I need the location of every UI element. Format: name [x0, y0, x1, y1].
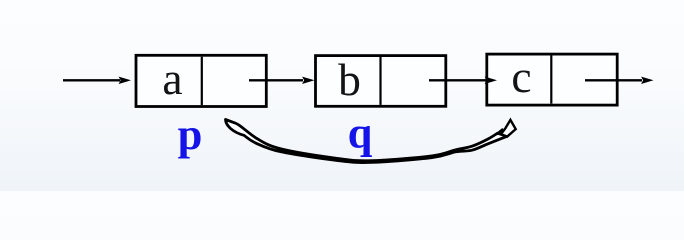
pointer arrow node b to node c	[429, 77, 497, 84]
curved arrow q: arrowhead	[501, 120, 516, 137]
node b box	[316, 56, 446, 107]
pointer arrow node a to node b	[249, 77, 315, 84]
svg-text:c: c	[511, 51, 531, 102]
node a box	[136, 55, 266, 106]
svg-text:a: a	[162, 53, 182, 104]
node b divider	[379, 57, 381, 105]
node c box	[487, 54, 617, 105]
curved arrow q: inner flag near head	[495, 129, 504, 135]
curved arrow q: body (outer+inner outline, closed at tail cap)	[226, 120, 508, 163]
head pointer arrow into node a	[63, 77, 131, 84]
tail pointer arrow out of node c	[585, 77, 654, 84]
svg-text:p: p	[178, 109, 203, 159]
node c divider	[550, 56, 552, 104]
svg-text:b: b	[338, 54, 361, 105]
node a divider	[201, 57, 203, 105]
svg-text:q: q	[348, 108, 373, 158]
